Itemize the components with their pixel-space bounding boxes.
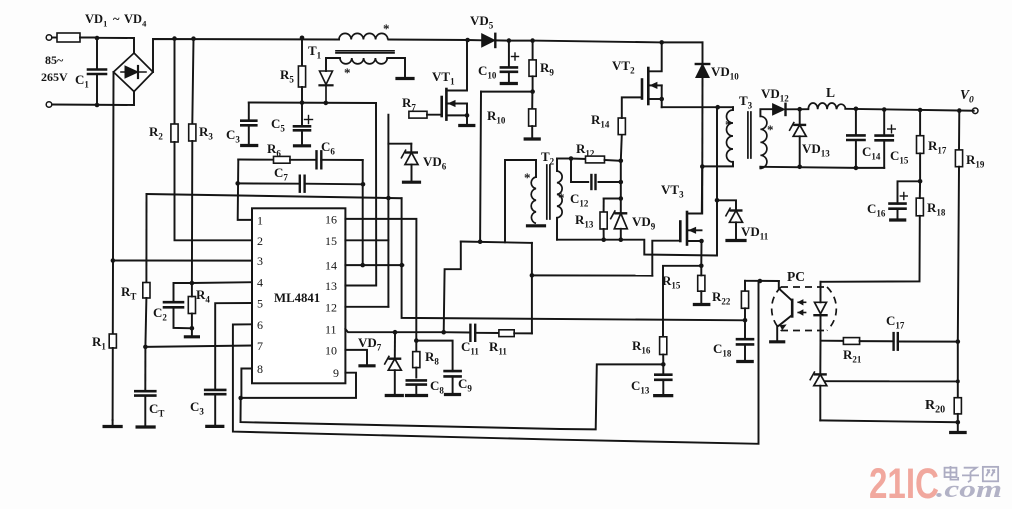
svg-text:12: 12 [325,300,337,314]
label VT3 [661,182,684,200]
wire Vcc node [249,102,376,105]
wire [557,158,571,160]
node junction R22 bottom [743,318,748,323]
label R11 [489,339,507,357]
node junction C1 bottom [95,103,100,108]
svg-text:21IC: 21IC [869,460,939,508]
wire x717 riser [716,107,718,255]
label T3 [739,93,753,111]
wire [702,162,733,167]
node junction VT1 drain [465,38,470,43]
wire [820,420,958,422]
resistor R8 [413,341,420,378]
label C12 [558,190,589,209]
zener diode VD7 [384,332,401,393]
node junction R9 top [530,38,535,43]
transistor VT1 [442,40,467,124]
wire [153,39,339,72]
wire [444,331,470,333]
node junction R5 top [300,36,305,41]
label C11 [461,339,479,357]
svg-text:16: 16 [325,212,337,226]
transformer T2 core [547,165,550,219]
resistor R2 [171,39,252,241]
ground [727,239,745,242]
label C7 [274,165,288,183]
wire x532 vertical [531,243,533,334]
svg-text:10: 10 [325,343,337,357]
transformer T1 primary [339,33,388,39]
resistor R7 [409,111,442,118]
node junction R4 bottom [190,326,195,331]
diode VD12 [773,104,809,115]
resistor R4 [188,283,195,328]
wire [52,92,134,106]
wire bottom line A [241,364,664,429]
ground [738,360,752,363]
wire [481,91,533,93]
wire y275 link [532,274,652,276]
label VT2 [612,58,635,76]
label T2 [541,149,555,167]
label VD9 [632,214,656,232]
label RT [121,284,136,302]
label C14 [862,144,881,162]
ground [104,420,121,427]
node junction y242 [478,239,483,244]
diode VD T1sec [320,71,333,103]
node junction T3 primary bottom [700,164,705,169]
label VD5 [470,13,494,31]
wire staircase [444,242,461,333]
label IC pin numbers [257,212,339,380]
label R20 [925,398,945,416]
transistor VT3 [652,167,702,276]
node junction PC top [758,279,763,284]
label C16 [867,201,886,219]
wire pin7 net [145,346,252,347]
optocoupler PC outline [772,287,837,331]
svg-text:5: 5 [257,297,263,311]
wire pin1 net [238,160,252,220]
label C3 [226,127,240,145]
label R8 [425,349,439,367]
capacitor C2 [164,283,192,328]
node junction R5 bottom [300,100,305,105]
svg-text:9: 9 [333,366,339,380]
label star T1 secondary [344,65,351,80]
node junction pin14 b [400,263,405,268]
ground [525,137,539,140]
label R14 [591,112,610,130]
wire pin14 net [345,264,403,266]
label R9 [540,60,554,78]
wire [97,38,134,53]
node junction C15 top [882,107,887,112]
zener diode VD13 [789,109,806,167]
node junction C12 right [619,180,624,185]
label Vo [960,87,974,106]
node junction C7 right [361,182,366,187]
resistor R11 [475,330,532,337]
node junction VD9 bottom [619,237,624,242]
node junction R3 top [191,36,196,41]
resistor R9 [529,41,536,92]
wire pin12 net [345,306,388,308]
wire R7 vertical [387,115,389,307]
wire V4 pin14 riser [402,198,745,320]
node junction VT3 source [699,239,704,244]
node junction R19 R20 R21 [956,339,961,344]
zener diode VDz [810,341,827,421]
ground [137,425,154,428]
resistor R16 [660,337,667,365]
svg-text:*: * [344,65,351,80]
optocoupler PC arrows [797,299,806,316]
label C2 [153,305,167,323]
resistor R3 [189,39,196,283]
wire [388,143,411,145]
label C13 [631,378,650,396]
node junction VT2 drain [659,40,664,45]
capacitor C10 [501,41,519,82]
node junction R9 R10 [530,89,535,94]
node junction R17 R18 [918,179,923,184]
node junction T2top R12 [569,156,574,161]
ground pin10 [345,350,374,366]
wire [509,40,533,42]
transformer T2 left winding [531,160,536,223]
node junction pin7 RT CT [143,345,148,350]
node junction C14 top [854,107,859,112]
bridge rectifier VD1-VD4 [114,53,154,92]
svg-text:*: * [524,170,531,185]
transformer T3 primary [718,107,733,162]
resistor R13 [600,199,621,240]
label R22 [712,289,731,307]
transistor VT2 [642,42,662,107]
resistor RT [143,194,150,347]
capacitor C13 [655,364,671,393]
label star T2 left [524,170,531,185]
resistor R6 [238,156,315,163]
svg-text:*: * [558,190,565,205]
svg-text:4: 4 [257,276,263,290]
wire R9R10 tap [479,92,482,242]
capacitor C8 [407,380,426,393]
label C18 [713,341,732,359]
wire [241,373,356,398]
wire [700,241,702,266]
node junction VD13 top [797,107,802,112]
node junction R19 top [957,108,962,113]
wire pin5 net [215,303,252,390]
label R4 [196,287,210,305]
capacitor C18 [737,320,753,360]
label R6 [267,141,281,159]
svg-text:6: 6 [257,318,263,332]
svg-text:11: 11 [325,323,337,337]
transistor PC phototransistor [777,281,792,340]
ground [694,303,708,306]
label R3 [199,124,213,142]
node junction C14 bottom [854,166,859,171]
label C17 [886,313,905,331]
label CT [149,401,164,419]
wire pin4 net [192,281,252,284]
capacitor C3b [205,390,225,425]
label R10 [487,108,506,126]
label R15 [662,273,681,291]
wire [662,41,703,43]
wire pin13 net [345,103,376,286]
label R1 [92,334,106,352]
label C5 [271,116,285,134]
label R19 [966,152,985,170]
label VD12 [761,86,789,104]
label VD7 [358,335,382,353]
wire T2 top link [505,160,536,242]
wire [326,58,340,71]
op-amp U1 ML4841 body [252,208,345,383]
resistor R15 [698,266,705,303]
node junction T3 primary top [715,105,720,110]
node Vo terminal [972,108,978,114]
node junction R13 top [619,196,624,201]
wire [387,58,405,76]
resistor R18 [821,181,924,281]
capacitor C17 [894,333,958,350]
ground [951,422,965,432]
svg-text:ML4841: ML4841 [274,291,320,305]
ground [771,340,784,343]
wire V1 [362,160,364,265]
resistor R14 [618,97,642,160]
node AC input terminal top [46,35,52,41]
capacitor C15 [876,110,896,168]
transformer T3 core [748,112,751,158]
label C3b [190,399,204,417]
wire pin6 net [233,281,759,444]
capacitor CT [135,347,155,425]
wire [468,39,482,41]
wire C9 jog [416,341,452,372]
label R21 [843,347,862,365]
node junction C11 rail [441,330,446,335]
label VD13 [802,141,830,159]
node junction C10 top [507,38,512,43]
wire pin8-9 net [241,369,252,398]
node junction zener tap [956,379,960,383]
ground [185,328,198,337]
wire [821,340,844,342]
ground [446,393,460,396]
svg-text:*: * [767,122,774,137]
label C15 [890,148,909,166]
svg-text:1: 1 [257,213,263,227]
label VD10 [711,64,739,82]
label C6 [321,139,335,157]
wire [957,342,959,398]
zener diode VD6 [401,144,418,180]
label star T3 primary [725,117,732,132]
capacitor C1 [88,38,106,105]
ground [207,425,223,428]
node junction VD13 bottom [797,165,802,170]
svg-text:14: 14 [325,259,337,273]
label R2 [149,124,163,142]
wire pin3 net [113,260,252,262]
ground [407,394,427,397]
resistor R17 [917,110,924,181]
inductor L [808,103,845,109]
svg-text:3: 3 [257,254,263,268]
label 85~265V [41,53,68,84]
node junction VD11 tap [715,198,720,203]
fuse FU [52,33,97,42]
wire T2 bottom rail [557,240,716,256]
ground [242,144,257,147]
resistor R20 [954,398,961,423]
watermark 21IC [869,460,1002,508]
label VT1 [432,69,455,87]
node junction R1 top [111,258,116,263]
wire output bottom rail [760,167,884,168]
label R5 [280,67,294,85]
node AC input terminal bottom [46,102,52,108]
wire Vo rail [845,109,973,111]
label R13 [575,212,594,230]
capacitor C11 [470,325,475,341]
node junction R12 right [619,159,624,164]
transformer T1 secondary [340,58,387,64]
ground [386,394,402,397]
transformer T2 right winding [557,159,562,240]
resistor R5 [298,38,305,103]
svg-text:*: * [383,21,390,36]
wire top bus right [533,41,662,43]
label R18 [927,200,946,218]
wire pin16 net [345,219,416,341]
capacitor C7 [238,176,363,192]
capacitor C16 [890,181,921,218]
wire ref rail [147,194,402,198]
zener diode VD9 [610,210,627,239]
node junction R8 top [414,338,419,343]
node junction pin8 [238,396,243,401]
wire [395,331,444,333]
transformer T1 core [336,51,394,53]
resistor R21 [843,338,893,345]
label C9 [458,376,472,394]
ground [528,224,545,227]
capacitor C3 [241,103,256,144]
node junction R13 bottom [601,237,606,242]
resistor R10 [529,92,536,138]
svg-text:8: 8 [257,362,263,376]
transformer T3 secondary [760,109,772,168]
wire R16 link [663,266,701,337]
svg-text:85~: 85~ [45,53,64,67]
capacitor C6 [317,151,363,168]
svg-text:*: * [725,117,732,132]
label VD1~VD4 [85,12,147,29]
ground [404,181,420,184]
node junction C1 top [95,36,100,41]
svg-text:7: 7 [257,339,263,353]
capacitor C9 [445,371,461,393]
ground [397,77,413,80]
label R12 [576,141,595,159]
label C1 [75,72,89,90]
label star T3 secondary [767,122,774,137]
ground [655,394,672,397]
node junction R20 bottom [956,420,961,425]
resistor R12 [571,156,621,163]
diode VD10 [696,42,709,213]
wire [662,106,718,108]
label R16 [632,338,651,356]
node junction R16 bottom [661,362,666,367]
label C10 [478,63,497,81]
label VD11 [741,224,769,242]
wire top bus [388,39,467,42]
wire pin11 net [345,329,395,332]
capacitor C12 [571,159,621,190]
ground [501,82,516,85]
ground [891,218,905,221]
node junction VT1 source [465,113,470,118]
svg-text:265V: 265V [41,70,68,84]
node junction rail R7 [386,196,391,201]
wire pin15 net [345,239,388,241]
wire [112,72,115,261]
label PC [787,269,805,284]
capacitor C14 [847,109,864,168]
resistor R1 [109,261,116,421]
label R7 [402,95,416,113]
label L [826,85,835,100]
label VD6 [423,154,447,172]
label T1 [308,43,322,61]
node junction C7 left [235,181,240,186]
resistor R22 [741,281,748,321]
wire x620 vertical [620,161,622,214]
node junction pin14 a [360,263,365,268]
node junction VD T1 bottom [324,101,329,106]
wire zener tap [825,380,957,382]
ground [295,144,310,147]
zener diode VD11 [717,200,743,238]
svg-text:PC: PC [787,269,805,284]
label R17 [928,138,947,156]
node junction R15 top [699,264,704,269]
node junction pin4 [190,281,195,286]
wire [745,280,779,282]
LED PC photodiode [815,282,827,341]
node junction R17 top [918,108,923,113]
capacitor C5 [294,103,313,144]
svg-text:13: 13 [325,279,337,293]
svg-text:15: 15 [325,234,337,248]
svg-text:L: L [826,85,835,100]
wire y242 link [461,242,532,243]
node junction R2 top [172,36,177,41]
label C8 [430,378,444,396]
diode VD5 [482,34,509,47]
node junction VT2 source [659,97,664,102]
svg-text:2: 2 [257,234,263,248]
